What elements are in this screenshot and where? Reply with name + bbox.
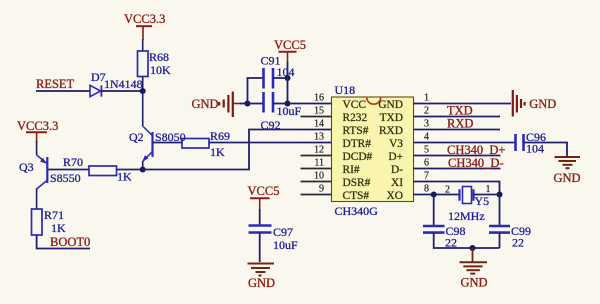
power flag VCC5 bottom	[248, 184, 280, 210]
ground GND right of pin1	[513, 90, 556, 117]
svg-text:6: 6	[424, 158, 429, 169]
pin 8 stub	[414, 194, 444, 196]
svg-text:GND: GND	[192, 97, 219, 111]
pin 6 stub	[414, 168, 444, 170]
earth ground C97	[248, 264, 276, 291]
svg-text:1K: 1K	[210, 145, 225, 159]
node D junction	[285, 75, 291, 81]
svg-text:2: 2	[424, 106, 429, 117]
svg-text:1N4148: 1N4148	[104, 77, 143, 91]
wire Q3 collector to R71	[36, 189, 38, 210]
node G junction XI	[497, 192, 503, 198]
node E junction	[285, 101, 291, 107]
svg-text:R69: R69	[210, 129, 230, 143]
wire pin8 XO to crystal	[444, 194, 460, 196]
svg-text:1: 1	[424, 93, 429, 104]
resistor R71 1K	[32, 208, 67, 235]
wire node G down to C99	[499, 195, 501, 227]
svg-text:CH340_D+: CH340_D+	[447, 143, 505, 157]
svg-text:R71: R71	[44, 208, 64, 222]
pin 11 stub	[301, 168, 332, 170]
wire R68 to node	[142, 77, 144, 92]
svg-text:RESET: RESET	[36, 77, 75, 91]
svg-text:GND: GND	[554, 171, 581, 185]
svg-text:16: 16	[314, 93, 324, 104]
svg-text:RXD: RXD	[379, 125, 403, 137]
svg-text:5: 5	[424, 145, 429, 156]
svg-text:104: 104	[526, 142, 544, 156]
wire Q3 base to R70	[48, 169, 90, 171]
svg-text:GND: GND	[378, 99, 403, 111]
capacitor C97 10uF	[249, 225, 299, 252]
pin 7 stub	[414, 181, 444, 183]
transistor Q3 S8550	[19, 155, 81, 189]
wire Q2 base to R69	[153, 142, 182, 144]
wire pin1 to GND	[444, 103, 512, 105]
capacitor C98 22	[423, 224, 466, 250]
svg-text:VCC5: VCC5	[274, 38, 306, 52]
earth ground right	[554, 157, 581, 185]
wire VCC3.3 to Q3 emitter	[36, 141, 38, 155]
wire R69 to DTR pin13	[209, 142, 301, 144]
wire C91 to node D	[273, 77, 288, 79]
svg-text:CTS#: CTS#	[343, 190, 370, 202]
pin 14 stub	[301, 129, 332, 131]
svg-text:10: 10	[314, 171, 324, 182]
pin 3 stub	[414, 129, 444, 131]
svg-text:12MHz: 12MHz	[448, 209, 485, 223]
svg-text:GND: GND	[529, 97, 556, 111]
wire VCC3.3 to R68	[142, 39, 144, 51]
pin 10 stub	[301, 181, 332, 183]
svg-text:XO: XO	[387, 190, 403, 202]
svg-text:15: 15	[314, 106, 324, 117]
svg-text:R232: R232	[343, 112, 368, 124]
svg-text:1K: 1K	[51, 221, 66, 235]
capacitor C99 22	[489, 224, 531, 250]
node B junction emitter	[140, 167, 146, 173]
wire pin7 XI to crystal	[444, 182, 500, 195]
svg-text:1K: 1K	[117, 170, 132, 184]
wire node C up to C91	[248, 78, 264, 104]
svg-text:U18: U18	[335, 83, 356, 97]
wire C99 to bottom rail	[499, 233, 501, 248]
svg-text:10uF: 10uF	[277, 104, 302, 118]
svg-text:R68: R68	[149, 50, 169, 64]
wire pin6 D-	[444, 168, 501, 170]
pin numbers left	[314, 93, 324, 195]
wire C97 to earth	[259, 233, 261, 263]
earth ground crystal	[460, 248, 488, 289]
wire VCC5 to C97	[259, 209, 261, 226]
net label BOOT0	[50, 235, 90, 249]
svg-text:RI#: RI#	[343, 164, 360, 176]
svg-text:Q3: Q3	[19, 160, 34, 174]
pin names left column	[343, 99, 373, 202]
svg-text:10K: 10K	[150, 63, 171, 77]
pin 2 stub	[414, 116, 444, 118]
resistor R70 1K	[63, 155, 132, 184]
wire C96 to earth	[524, 143, 568, 157]
svg-text:C92: C92	[261, 118, 281, 132]
capacitor C96 104	[516, 130, 547, 156]
svg-text:D-: D-	[391, 164, 403, 176]
svg-text:GND: GND	[461, 275, 488, 289]
wire C92 to node E	[273, 103, 288, 105]
power flag VCC3.3 left	[17, 119, 58, 142]
svg-text:CH340G: CH340G	[335, 204, 379, 218]
svg-text:V3: V3	[389, 138, 403, 150]
wire node E to pin16	[288, 103, 301, 105]
wire RESET to D7	[36, 90, 90, 92]
svg-text:4: 4	[424, 132, 429, 143]
svg-text:VCC: VCC	[343, 99, 366, 111]
wire pin2 TXD	[444, 116, 501, 118]
svg-text:22: 22	[512, 236, 524, 250]
wire pin4 to C96	[444, 142, 515, 144]
svg-text:BOOT0: BOOT0	[50, 235, 90, 249]
svg-text:S8550: S8550	[50, 171, 81, 185]
svg-text:DTR#: DTR#	[343, 138, 372, 150]
pin 16 stub	[301, 103, 332, 105]
svg-text:9: 9	[319, 184, 324, 195]
crystal Y5 12MHz	[445, 184, 491, 223]
wire VCC5 down through nodes	[287, 62, 289, 104]
wire C98 to bottom rail	[434, 233, 500, 248]
svg-text:D+: D+	[388, 151, 403, 163]
resistor R68 10K	[138, 50, 172, 77]
pin 1 stub	[414, 103, 444, 105]
pin 12 stub	[301, 155, 332, 157]
resistor R69 1K	[182, 129, 230, 159]
wire R70 to node B	[117, 169, 143, 171]
svg-text:VCC3.3: VCC3.3	[124, 12, 165, 26]
node H junction bottom rail	[470, 245, 476, 251]
wire node B to RTS riser	[143, 130, 301, 170]
svg-text:TXD: TXD	[447, 104, 473, 118]
wire D7 to node A	[101, 90, 142, 92]
svg-text:13: 13	[314, 132, 324, 143]
IC U18 CH340G body	[332, 83, 414, 218]
pin 13 stub	[301, 142, 332, 144]
svg-text:GND: GND	[248, 276, 275, 290]
svg-text:Y5: Y5	[475, 194, 490, 208]
wire node A to Q2 collector	[142, 91, 144, 126]
node C junction	[245, 101, 251, 107]
wire node C to C92	[248, 103, 264, 105]
pin numbers right	[424, 93, 429, 195]
svg-text:VCC5: VCC5	[248, 184, 280, 198]
pin 4 stub	[414, 142, 444, 144]
svg-text:TXD: TXD	[380, 112, 403, 124]
transistor Q2 S8050	[129, 126, 186, 162]
svg-text:DSR#: DSR#	[343, 177, 371, 189]
pin 15 stub	[301, 116, 332, 118]
svg-text:RTS#: RTS#	[343, 125, 369, 137]
power flag VCC3.3 top	[124, 12, 165, 40]
capacitor C92 10uF	[261, 92, 302, 132]
wire crystal to XI node	[474, 194, 500, 196]
net label RESET	[36, 77, 75, 91]
pin 9 stub	[301, 194, 332, 196]
capacitor C91 104	[261, 54, 295, 89]
svg-text:14: 14	[314, 119, 324, 130]
diode D7 1N4148	[90, 70, 143, 97]
ground GND left (sideways)	[192, 92, 242, 118]
wire Q2 emitter down	[142, 161, 144, 170]
node F junction XO	[431, 192, 437, 198]
svg-text:C97: C97	[273, 225, 293, 239]
wire node F down to C98	[433, 195, 435, 227]
svg-text:10uF: 10uF	[273, 238, 298, 252]
svg-text:3: 3	[424, 119, 429, 130]
svg-text:RXD: RXD	[447, 117, 473, 131]
svg-text:CH340_D-: CH340_D-	[448, 156, 504, 170]
svg-text:R70: R70	[63, 155, 83, 169]
wire R71 to BOOT0	[37, 235, 90, 249]
wire pin3 RXD	[444, 129, 501, 131]
svg-text:Q2: Q2	[129, 130, 144, 144]
svg-text:2: 2	[445, 185, 450, 196]
svg-text:12: 12	[314, 145, 324, 156]
pin names right column	[378, 99, 403, 202]
svg-text:8: 8	[424, 184, 429, 195]
svg-text:VCC3.3: VCC3.3	[17, 119, 58, 133]
wire pin5 D+	[444, 155, 501, 157]
wire gnd to node C	[240, 103, 248, 105]
power flag VCC5 top	[274, 38, 306, 63]
svg-text:7: 7	[424, 171, 429, 182]
svg-text:DCD#: DCD#	[343, 151, 373, 163]
node A junction	[140, 88, 146, 94]
svg-text:11: 11	[314, 158, 324, 169]
svg-text:XI: XI	[391, 177, 403, 189]
pin 5 stub	[414, 155, 444, 157]
